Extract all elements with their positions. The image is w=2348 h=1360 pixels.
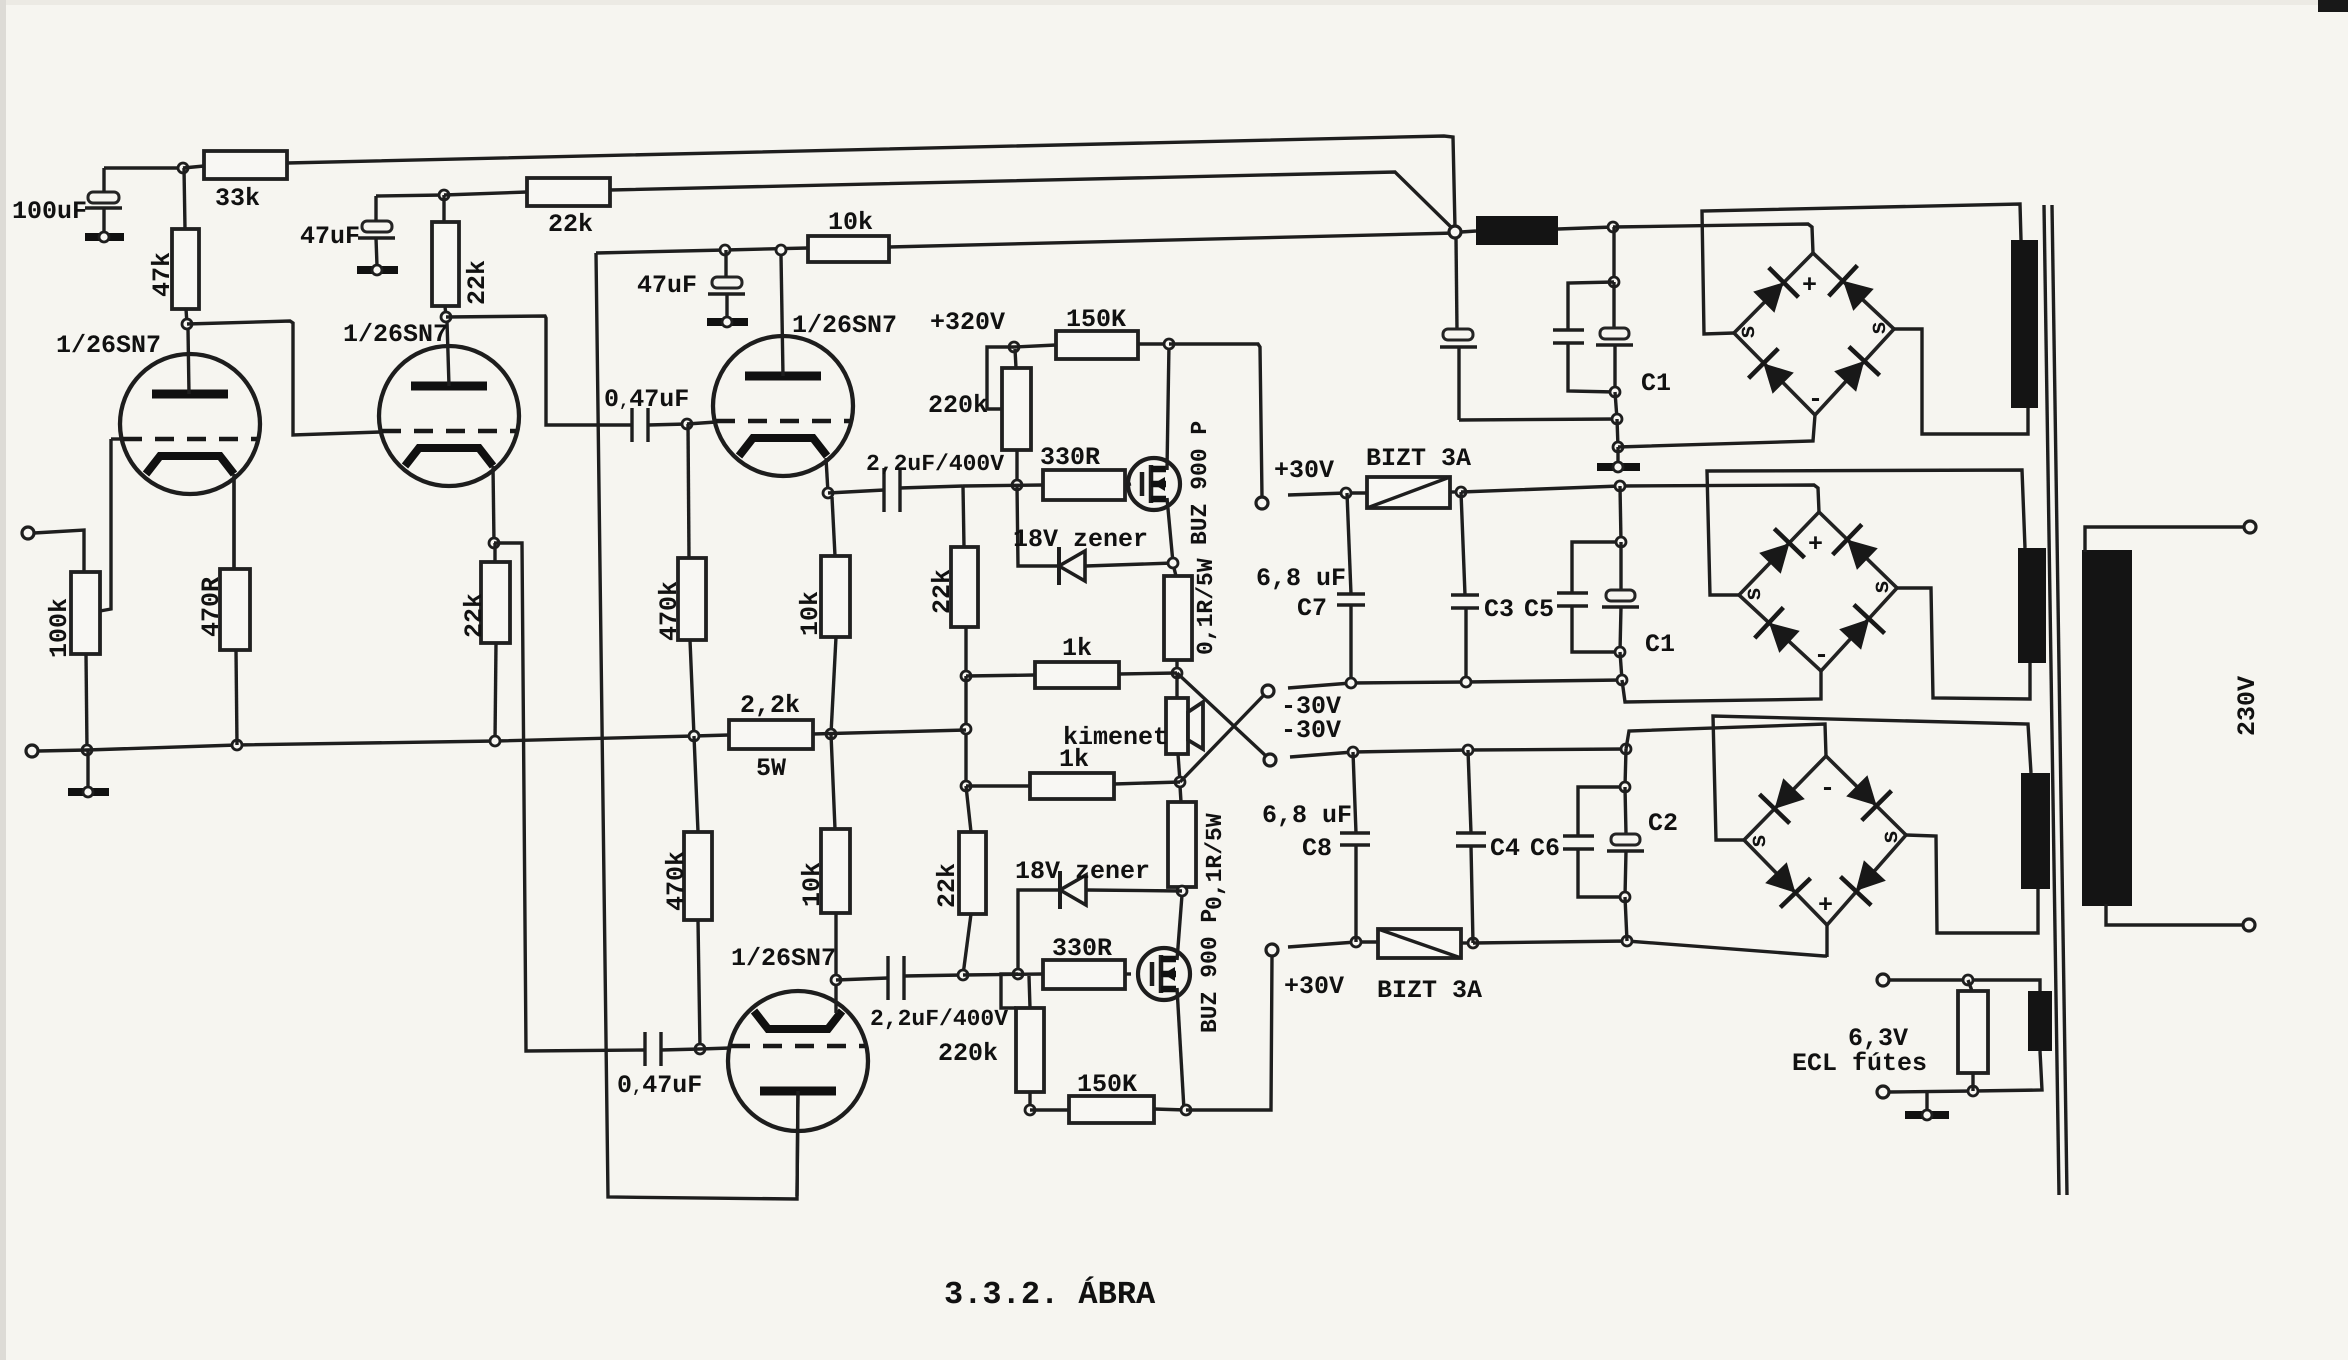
svg-text:470k: 470k <box>655 581 684 641</box>
svg-text:+30V: +30V <box>1274 456 1334 485</box>
node 22k/1k upper <box>961 671 971 681</box>
svg-text:330R: 330R <box>1040 443 1100 472</box>
wire top bus line2 (22k to PSU node) <box>610 172 1455 231</box>
svg-text:s: s <box>1741 587 1767 601</box>
svg-text:18V zener: 18V zener <box>1013 525 1148 554</box>
svg-text:22k: 22k <box>928 569 957 614</box>
node C6 bottom lead <box>1622 936 1632 946</box>
node 0,47uF lower / 470k <box>695 1044 705 1054</box>
node choke out <box>1608 222 1618 232</box>
input terminal (top) <box>22 527 34 539</box>
node tube3 cathode <box>823 488 833 498</box>
node 1k lower left <box>961 781 971 791</box>
tube 1/26SN7 V3 <box>713 255 897 493</box>
terminal +30V (upper connector) <box>1256 497 1268 509</box>
node tube2 plate <box>441 312 451 322</box>
svg-text:22k: 22k <box>933 863 962 908</box>
wire rail A (-30V) <box>1288 680 1622 688</box>
svg-text:230V: 230V <box>2233 676 2262 736</box>
svg-text:-: - <box>1820 774 1835 803</box>
node 470k top rail <box>689 731 699 741</box>
capacitor C5 (parallel pair) <box>1557 486 1639 680</box>
wire bridge2 s-loop left (over top to winding) <box>1707 470 2025 595</box>
wire rail D (+30V lower to fuse) <box>1288 942 1378 947</box>
node 33k-left <box>178 163 188 173</box>
wire bridge3 s right to winding bottom <box>1906 835 2038 933</box>
wire tube2 cathode to 0,47uF (lower) <box>494 543 645 1051</box>
potentiometer 100k <box>45 439 111 750</box>
wire bridge3 plus lead <box>1825 925 1828 957</box>
svg-text:100k: 100k <box>45 598 74 658</box>
svg-text:22k: 22k <box>463 260 492 305</box>
node C4 top <box>1463 745 1473 755</box>
node C3 bottom <box>1461 677 1471 687</box>
terminal +30V (lower connector) <box>1266 944 1278 956</box>
svg-text:+: + <box>1818 891 1833 920</box>
resistor 330R (upper) <box>1040 443 1131 500</box>
wire rail D continues to bridge3 <box>1473 941 1827 956</box>
capacitor C3 <box>1451 492 1554 682</box>
wire 100uF to 33k node <box>104 166 183 169</box>
svg-text:150K: 150K <box>1066 305 1126 334</box>
resistor 22k (upper driver) <box>928 486 978 676</box>
resistor 470R <box>197 474 250 745</box>
svg-text:33k: 33k <box>215 184 260 213</box>
tube 1/26SN7 V4 (inverted) <box>728 944 868 1196</box>
resistor heater bleeder <box>1958 980 1988 1091</box>
scan top band <box>0 0 2348 5</box>
svg-text:2,2uF/400V: 2,2uF/400V <box>866 451 1004 477</box>
wire tube2 plate to coupling cap <box>446 316 632 425</box>
svg-text:330R: 330R <box>1052 934 1112 963</box>
node MOSFET1 drain / 150K right <box>1164 339 1174 349</box>
transistor BUZ 900 P (lower MOSFET) <box>1138 895 1223 1110</box>
terminal -30V (lower connector) <box>1264 754 1276 766</box>
svg-text:1k: 1k <box>1062 634 1092 663</box>
resistor 1k (lower) <box>966 745 1180 799</box>
capacitor 0,47uF (upper) <box>604 385 689 442</box>
svg-text:1/26SN7: 1/26SN7 <box>56 331 161 360</box>
wire X-cross lower diagonal <box>1180 695 1264 782</box>
wire bridge3 s-loop left (over top to winding) <box>1713 716 2031 840</box>
svg-text:+30V: +30V <box>1284 972 1344 1001</box>
node 2,2k right <box>961 724 971 734</box>
svg-text:s: s <box>1869 580 1895 594</box>
svg-text:+: + <box>1808 530 1823 559</box>
zener 18V (lower) <box>1015 857 1182 974</box>
wire rail B (+30V to bridge2 plus) <box>1288 493 1367 495</box>
svg-text:47uF: 47uF <box>637 271 697 300</box>
svg-text:0,47uF: 0,47uF <box>604 385 689 414</box>
node output upper <box>1172 668 1182 678</box>
wire mains bottom <box>2106 904 2243 925</box>
svg-text:47uF: 47uF <box>300 222 360 251</box>
node C7 bottom <box>1346 678 1356 688</box>
node input ground <box>82 745 92 755</box>
svg-text:220k: 220k <box>928 391 988 420</box>
resistor 1k (upper) <box>966 634 1177 688</box>
wire top bus line3 (10k to PSU node) <box>889 233 1455 247</box>
node 10k bottom rail <box>826 729 836 739</box>
node fuse1 left / C7 top <box>1341 488 1351 498</box>
svg-text:BIZT 3A: BIZT 3A <box>1366 444 1471 473</box>
ground (below 100uF) <box>85 232 124 242</box>
node C8 top <box>1348 747 1358 757</box>
svg-text:5W: 5W <box>756 754 786 783</box>
resistor 10k (tube4) <box>798 734 850 980</box>
svg-text:C4: C4 <box>1490 834 1520 863</box>
bridge rectifier B2 <box>1739 512 1897 671</box>
svg-text:220k: 220k <box>938 1039 998 1068</box>
node 150K lower left <box>1025 1105 1035 1115</box>
transformer winding heater 6,3V <box>2028 991 2052 1051</box>
svg-text:C7: C7 <box>1297 594 1327 623</box>
node +320V / 150K left <box>1009 342 1019 352</box>
wire bridge3 minus to rail C <box>1626 724 1826 756</box>
svg-text:C1: C1 <box>1645 630 1675 659</box>
resistor 150K (lower) <box>1030 1070 1186 1123</box>
resistor 47k <box>148 168 199 324</box>
wire heater top <box>1889 980 2040 991</box>
svg-text:C2: C2 <box>1648 809 1678 838</box>
svg-text:6,8 uF: 6,8 uF <box>1256 564 1346 593</box>
node MOSFET2 source <box>1177 886 1187 896</box>
node tube3 plate top <box>776 245 786 255</box>
svg-text:47k: 47k <box>148 252 177 297</box>
node tube1 plate <box>182 319 192 329</box>
resistor 0,1R/5W (lower) <box>1168 786 1228 910</box>
capacitor C4 <box>1456 750 1560 943</box>
transformer winding W1 <box>2011 240 2038 408</box>
wire cathode rail <box>38 735 729 751</box>
svg-text:-: - <box>1808 385 1823 414</box>
svg-text:s: s <box>1878 830 1904 844</box>
node 0,47uF / 470k <box>682 419 692 429</box>
ground (heater) <box>1905 1092 1949 1120</box>
transformer core <box>2044 205 2067 1195</box>
wire X-cross upper diagonal <box>1177 673 1266 756</box>
speaker kimenet <box>1063 673 1203 782</box>
transformer winding W2 <box>2018 548 2046 663</box>
node rail C end <box>1621 744 1631 754</box>
wire bridge1 s right to winding bottom <box>1894 329 2028 434</box>
resistor 22k (tube2 plate load) <box>432 195 492 317</box>
resistor 220k (upper) <box>928 349 1031 485</box>
wire input to 100k pot <box>34 530 84 572</box>
svg-text:100uF: 100uF <box>12 197 87 226</box>
svg-text:s: s <box>1866 321 1892 335</box>
terminal heater top <box>1877 974 1889 986</box>
wire bridge1 s-loop left (over top to winding) <box>1702 204 2021 334</box>
node 47uF (tube3) <box>720 245 730 255</box>
capacitor 100uF <box>12 168 122 233</box>
svg-text:s: s <box>1746 834 1772 848</box>
svg-text:s: s <box>1735 325 1761 339</box>
wire +320V hook <box>987 347 1014 409</box>
svg-text:0,1R/5W: 0,1R/5W <box>1193 558 1219 655</box>
terminal mains bottom <box>2243 919 2255 931</box>
svg-text:10k: 10k <box>796 591 825 636</box>
node MOSFET2 drain <box>1181 1105 1191 1115</box>
node tube2 cathode <box>489 538 499 548</box>
svg-text:+: + <box>1802 271 1817 300</box>
transformer winding W3 <box>2021 773 2050 889</box>
resistor 470k (upper) <box>655 424 706 736</box>
svg-text:0,47uF: 0,47uF <box>617 1071 702 1100</box>
resistor 330R (lower) <box>1043 934 1131 989</box>
svg-text:470R: 470R <box>197 577 226 637</box>
svg-text:-: - <box>1814 641 1829 670</box>
resistor 22k (bus to +320V, horizontal) <box>444 178 610 239</box>
capacitor C8 6,8uF <box>1262 752 1370 942</box>
wire tube1 plate to tube2 grid <box>187 321 380 435</box>
node 22k cathode bottom <box>490 736 500 746</box>
node heater resistor top <box>1963 975 1973 985</box>
resistor 0,1R/5W (upper) <box>1164 558 1219 673</box>
svg-text:2,2k: 2,2k <box>740 691 800 720</box>
resistor 10k (tube3 cathode) <box>796 497 850 734</box>
svg-text:10k: 10k <box>828 208 873 237</box>
node HT ground <box>1613 442 1623 452</box>
svg-text:1/26SN7: 1/26SN7 <box>792 311 897 340</box>
ground (47uF tube3) <box>707 317 748 327</box>
node output lower <box>1175 777 1185 787</box>
wire to tube3 grid <box>687 422 716 424</box>
svg-text:C8: C8 <box>1302 834 1332 863</box>
wire bridge2 minus to rail A <box>1622 671 1821 702</box>
wire 47uF to 22k node <box>376 195 444 196</box>
svg-text:18V zener: 18V zener <box>1015 857 1150 886</box>
svg-text:ECL fútes: ECL fútes <box>1792 1049 1927 1078</box>
svg-text:BIZT 3A: BIZT 3A <box>1377 976 1482 1005</box>
wire gate node lower <box>963 974 1043 975</box>
svg-text:2,2uF/400V: 2,2uF/400V <box>870 1006 1008 1032</box>
node 22k top <box>439 190 449 200</box>
node rail A end <box>1617 675 1627 685</box>
fuse BIZT 3A (lower) <box>1377 929 1482 1005</box>
svg-text:0,1R/5W: 0,1R/5W <box>1202 813 1228 910</box>
svg-text:10k: 10k <box>798 862 827 907</box>
resistor 10k (tube3 plate, horizontal) <box>808 208 889 262</box>
node fuse1 right / C3 top <box>1456 487 1466 497</box>
node C5 top lead <box>1615 481 1625 491</box>
terminal heater bottom <box>1877 1086 1889 1098</box>
capacitor 2,2uF/400V (lower) <box>836 956 1008 1032</box>
tube 1/26SN7 V1 <box>56 329 260 569</box>
scan left edge strip <box>0 0 6 1360</box>
capacitor 47uF (tube3) <box>637 250 745 318</box>
capacitor C6 (parallel pair) <box>1563 749 1644 941</box>
node heater resistor bottom <box>1968 1086 1978 1096</box>
wire mains top <box>2085 527 2244 552</box>
resistor 2,2k 5W <box>729 691 966 783</box>
svg-text:C1: C1 <box>1641 369 1671 398</box>
svg-text:1/26SN7: 1/26SN7 <box>343 320 448 349</box>
svg-text:BUZ 900 P: BUZ 900 P <box>1197 909 1223 1033</box>
wire bridge2 s right to winding bottom <box>1897 588 2030 699</box>
bridge rectifier B3 <box>1744 756 1906 925</box>
resistor 22k (lower driver) <box>933 786 986 975</box>
svg-text:-30V: -30V <box>1281 716 1341 745</box>
node fuse2 right / C4 bottom <box>1468 938 1478 948</box>
svg-text:470k: 470k <box>662 851 691 911</box>
node fuse2 left / C8 bottom <box>1351 937 1361 947</box>
resistor 220k (lower) <box>938 974 1044 1110</box>
wire HT to bridge1 plus <box>1613 224 1813 253</box>
ground (input) <box>68 750 109 797</box>
capacitor C1 HT (parallel pair) <box>1553 227 1633 447</box>
svg-text:22k: 22k <box>548 210 593 239</box>
svg-text:C6: C6 <box>1530 834 1560 863</box>
wire tube3 plate rail <box>596 248 808 253</box>
node HT input <box>1449 226 1461 238</box>
svg-text:1k: 1k <box>1059 745 1089 774</box>
svg-text:6,8 uF: 6,8 uF <box>1262 801 1352 830</box>
capacitor C7 6,8uF <box>1256 493 1365 683</box>
node 470R bottom <box>232 740 242 750</box>
resistor 150K (upper) <box>1014 305 1169 359</box>
resistor 470k (lower) <box>662 736 712 1049</box>
wire drain to +30V connector (lower) <box>1186 956 1272 1110</box>
wire rail C (-30V lower) <box>1290 749 1626 757</box>
fuse BIZT 3A (upper) <box>1366 444 1471 508</box>
ground (47uF tube2) <box>357 265 398 275</box>
inductor choke (solid) <box>1461 216 1613 245</box>
scan corner mark <box>2318 0 2348 12</box>
wire heater bottom <box>1889 1051 2042 1092</box>
wire rail B continues <box>1461 485 1819 512</box>
node 330R left lower <box>1013 969 1023 979</box>
capacitor 47uF (tube2 top) <box>300 196 395 266</box>
node MOSFET1 source <box>1168 558 1178 568</box>
ground (HT filter) <box>1597 447 1640 472</box>
transistor BUZ 900 P (upper MOSFET) <box>1128 344 1213 563</box>
svg-text:+320V: +320V <box>930 308 1005 337</box>
transformer primary winding <box>2082 550 2132 906</box>
wire bridge1 minus <box>1618 415 1815 447</box>
svg-text:150K: 150K <box>1077 1070 1137 1099</box>
svg-text:C5: C5 <box>1524 595 1554 624</box>
node 330R left upper <box>1012 480 1022 490</box>
wire 22k mid link <box>964 676 967 786</box>
svg-text:3.3.2. ÁBRA: 3.3.2. ÁBRA <box>944 1276 1156 1313</box>
svg-text:22k: 22k <box>460 593 489 638</box>
resistor 33k <box>183 151 287 213</box>
svg-text:BUZ 900 P: BUZ 900 P <box>1187 421 1213 545</box>
svg-text:C3: C3 <box>1484 595 1514 624</box>
capacitor 100n (HT input) <box>1440 238 1617 420</box>
capacitor 2,2uF/400V (upper) <box>828 451 1004 512</box>
node tube4 cathode <box>831 975 841 985</box>
wire top bus line1 (33k to PSU node) <box>287 136 1455 228</box>
terminal mains top <box>2244 521 2256 533</box>
wire gate node upper <box>963 485 1043 486</box>
svg-text:1/26SN7: 1/26SN7 <box>731 944 836 973</box>
wire long vertical (tube3 plate rail to tube4 plate) <box>596 253 798 1199</box>
tube 1/26SN7 V2 <box>343 320 519 543</box>
input terminal (bottom) <box>26 745 38 757</box>
bridge rectifier B1 <box>1734 253 1894 415</box>
wire drain to +30V connector (upper) <box>1169 344 1262 497</box>
capacitor 0,47uF (lower) <box>617 1032 730 1100</box>
resistor 22k (tube2 cathode) <box>460 543 510 741</box>
zener 18V (upper) <box>1013 485 1173 585</box>
node 22k lower bottom <box>958 970 968 980</box>
terminal -30V (upper connector) <box>1262 685 1274 697</box>
